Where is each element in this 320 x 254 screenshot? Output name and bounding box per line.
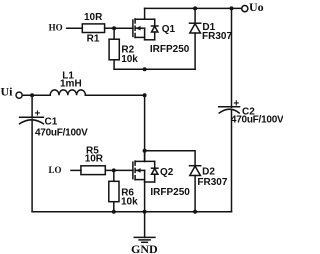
svg-text:Ui: Ui bbox=[1, 84, 14, 98]
svg-text:Q1: Q1 bbox=[162, 24, 176, 35]
terminal Ui bbox=[16, 92, 22, 98]
svg-text:C1: C1 bbox=[45, 116, 58, 127]
svg-text:470uF/100V: 470uF/100V bbox=[35, 128, 88, 139]
resistor R6 bbox=[113, 170, 115, 181]
wire switch-node rail bbox=[114, 68, 195, 70]
svg-text:10k: 10k bbox=[121, 54, 138, 65]
svg-text:FR307: FR307 bbox=[197, 177, 227, 188]
svg-text:IRFP250: IRFP250 bbox=[150, 44, 190, 55]
svg-text:10R: 10R bbox=[85, 153, 104, 164]
wire to Q2 gate bbox=[114, 169, 133, 171]
node D1 top bbox=[193, 6, 197, 10]
inductor L1 bbox=[50, 90, 85, 95]
svg-text:GND: GND bbox=[131, 242, 158, 254]
svg-text:470uF/100V: 470uF/100V bbox=[231, 115, 283, 126]
node R5/R6/gate bbox=[112, 168, 116, 172]
node GND junction bbox=[143, 210, 147, 214]
wire Ui to L1 bbox=[23, 94, 51, 96]
wire switch node vertical bbox=[144, 95, 146, 161]
svg-text:10k: 10k bbox=[121, 196, 138, 207]
svg-text:FR307: FR307 bbox=[202, 31, 232, 42]
capacitor C2 bbox=[231, 8, 233, 107]
wire Q2 source down bbox=[144, 182, 146, 212]
svg-text:+: + bbox=[35, 109, 41, 120]
node L1 junction bbox=[143, 93, 147, 97]
transistor Q2 bbox=[133, 151, 158, 182]
node Q2 drain / D2 bbox=[143, 149, 147, 153]
ground bbox=[134, 212, 155, 243]
diode D2 bbox=[190, 165, 201, 167]
wire top rail bbox=[145, 7, 242, 9]
resistor R2 bbox=[113, 28, 115, 39]
svg-text:Uo: Uo bbox=[249, 0, 264, 14]
transistor Q1 bbox=[133, 8, 158, 39]
node Ui/C1 junction bbox=[30, 93, 34, 97]
node D2 bottom bbox=[193, 210, 197, 214]
svg-text:1mH: 1mH bbox=[60, 78, 82, 89]
wire LO lead bbox=[71, 169, 81, 171]
wire to Q1 gate bbox=[114, 27, 133, 29]
svg-text:HO: HO bbox=[49, 23, 63, 33]
svg-text:R1: R1 bbox=[87, 34, 100, 45]
terminal Uo bbox=[242, 6, 248, 12]
node C2 top bbox=[230, 6, 234, 10]
wire to D2 bbox=[145, 151, 196, 166]
wire L1 to switch node bbox=[85, 94, 144, 96]
svg-text:+: + bbox=[233, 98, 239, 109]
resistor R5 bbox=[81, 166, 105, 175]
node R1/R2/gate bbox=[112, 26, 116, 30]
svg-text:Q2: Q2 bbox=[160, 167, 174, 178]
svg-text:D2: D2 bbox=[202, 166, 215, 177]
wire bottom rail bbox=[32, 211, 231, 213]
svg-text:LO: LO bbox=[49, 165, 62, 175]
node R6 bottom bbox=[112, 210, 116, 214]
svg-text:IRFP250: IRFP250 bbox=[150, 187, 190, 198]
resistor R1 bbox=[82, 24, 104, 33]
wire HO lead bbox=[67, 27, 83, 29]
diode D1 bbox=[194, 8, 196, 23]
capacitor C1 bbox=[31, 95, 33, 118]
svg-text:10R: 10R bbox=[84, 12, 103, 23]
node switch junction bbox=[143, 67, 147, 71]
